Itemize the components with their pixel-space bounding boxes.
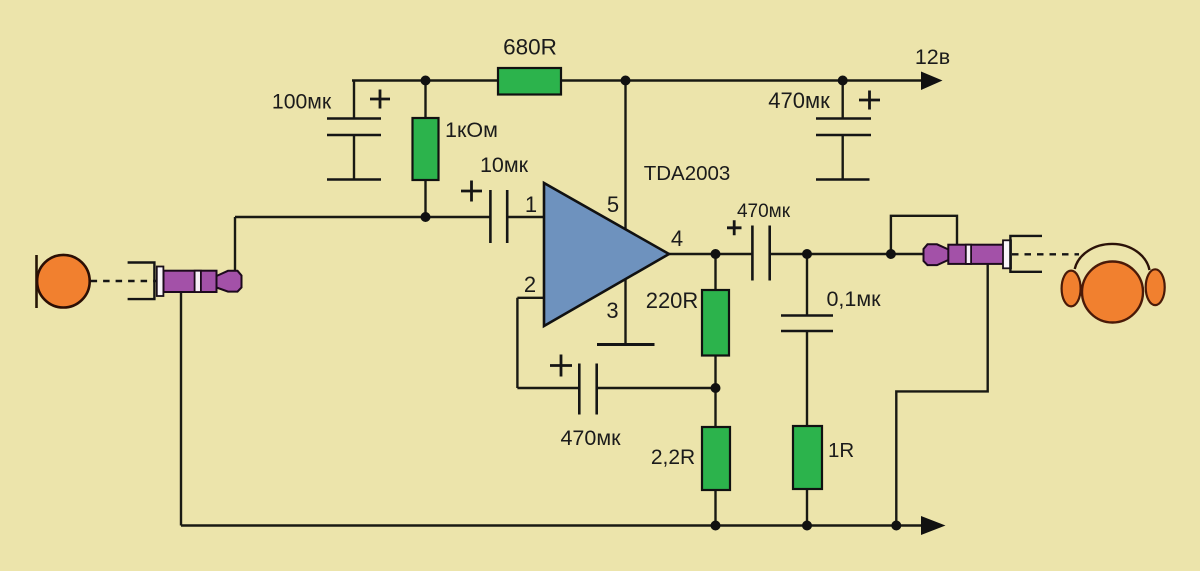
node: feedback junction	[711, 383, 721, 393]
svg-text:680R: 680R	[503, 34, 557, 59]
svg-text:5: 5	[607, 192, 619, 217]
svg-text:TDA2003: TDA2003	[644, 162, 731, 185]
wire: C2 to pin 1	[507, 216, 545, 218]
wire: C3 bottom lead	[842, 135, 844, 180]
wire: C5 to node	[597, 387, 716, 389]
node: bottom x R4	[802, 521, 812, 531]
node: bottom x sleeve	[891, 521, 901, 531]
output jack socket bracket	[1010, 236, 1042, 272]
wire: feedback to C5	[517, 387, 579, 389]
wire: C1 bottom lead	[353, 135, 355, 180]
resistor R4 1R	[793, 426, 822, 489]
node: rail x R1	[421, 76, 431, 86]
node: output x hook	[886, 249, 896, 259]
op-amp U1 TDA2003 triangle	[544, 183, 669, 326]
svg-text:220R: 220R	[646, 288, 699, 313]
wire: output line after C4	[770, 253, 926, 255]
node: rail x pin5	[621, 76, 631, 86]
wire: input jack sleeve drop	[180, 292, 182, 526]
wire: +12V top rail	[352, 79, 926, 81]
node: bottom x R3	[711, 521, 721, 531]
wire: C6 to R4	[806, 331, 808, 426]
input jack socket bracket	[128, 263, 155, 300]
wire: output jack sleeve return	[896, 264, 987, 526]
output jack ring stripe	[966, 245, 971, 264]
svg-text:470мк: 470мк	[768, 88, 830, 113]
wire: input drop to jack tip	[234, 217, 236, 271]
svg-text:12в: 12в	[915, 45, 950, 69]
svg-text:1: 1	[525, 192, 537, 217]
dashed link jack to headphones	[1012, 253, 1079, 255]
wire: pin 3 to ground	[624, 277, 626, 345]
svg-text:2,2R: 2,2R	[651, 446, 695, 469]
output jack collar	[1003, 240, 1011, 268]
headphones head	[1082, 262, 1143, 323]
input jack barrel	[164, 271, 217, 292]
capacitor C6 0,1мк plates	[781, 316, 833, 332]
capacitor C5 plus sign	[550, 355, 572, 377]
node: output x R2	[711, 249, 721, 259]
headphones headband	[1075, 244, 1150, 270]
resistor R3 2,2R	[702, 427, 730, 490]
input jack collar	[157, 267, 164, 297]
headphones right earpiece	[1146, 269, 1165, 305]
wire: R3 top lead	[714, 388, 716, 427]
capacitor C1 plus sign	[370, 90, 390, 109]
wire: R4 bottom lead	[806, 489, 808, 526]
wire: C1 top lead	[353, 81, 355, 119]
input jack tip	[217, 271, 242, 292]
svg-text:4: 4	[671, 226, 683, 251]
capacitor C3 plus sign	[859, 91, 880, 110]
node: output x C6	[802, 249, 812, 259]
resistor R2 220R	[702, 290, 729, 356]
node: rail x C3	[838, 76, 848, 86]
wire: R1 bottom lead	[424, 180, 426, 217]
wire: R2 top lead	[714, 254, 716, 290]
resistor R5 680R	[498, 68, 561, 95]
ground bar	[597, 343, 655, 346]
capacitor C5 470мк feedback plates	[579, 364, 596, 415]
svg-text:1R: 1R	[828, 439, 854, 462]
wire: output line from pin 4	[668, 253, 752, 255]
node: input x R1	[421, 212, 431, 222]
capacitor C4 470мк output plates	[752, 226, 769, 281]
capacitor C2 plus sign	[461, 181, 482, 202]
dashed link mic to jack	[91, 280, 157, 282]
output jack barrel	[948, 245, 1006, 264]
arrow ground rail	[921, 516, 946, 535]
svg-text:1кОм: 1кОм	[445, 118, 498, 142]
arrow +12V	[921, 72, 943, 91]
capacitor C3 470мк plates	[816, 119, 871, 180]
output jack tip	[924, 244, 949, 265]
wire: ground bottom rail	[181, 524, 929, 526]
resistor R1 1кОм	[413, 118, 439, 180]
svg-text:10мк: 10мк	[480, 153, 529, 177]
svg-text:470мк: 470мк	[737, 201, 791, 222]
svg-text:2: 2	[524, 272, 536, 297]
svg-text:470мк: 470мк	[560, 426, 621, 450]
input jack ring stripe	[195, 271, 201, 292]
wire: input line left segment	[235, 216, 490, 218]
wire: pin 2 stub	[517, 297, 545, 299]
capacitor C1 100мк plates	[327, 119, 381, 180]
wire: R3 bottom lead	[714, 490, 716, 526]
capacitor C2 10мк plates	[490, 190, 507, 243]
svg-text:0,1мк: 0,1мк	[826, 287, 881, 311]
wire: pin 5 to rail	[624, 81, 626, 232]
wire: hook over output jack	[891, 216, 957, 254]
microphone body	[37, 255, 90, 308]
wire: feedback vertical	[516, 298, 518, 388]
capacitor C4 plus sign	[727, 220, 742, 235]
wire: C6 top lead	[806, 254, 808, 316]
wire: R2 bottom lead	[714, 356, 716, 389]
svg-text:3: 3	[606, 298, 618, 323]
wire: R1 top lead	[424, 81, 426, 119]
svg-text:100мк: 100мк	[272, 91, 332, 114]
headphones left earpiece	[1062, 271, 1081, 307]
wire: C3 top lead	[842, 81, 844, 119]
